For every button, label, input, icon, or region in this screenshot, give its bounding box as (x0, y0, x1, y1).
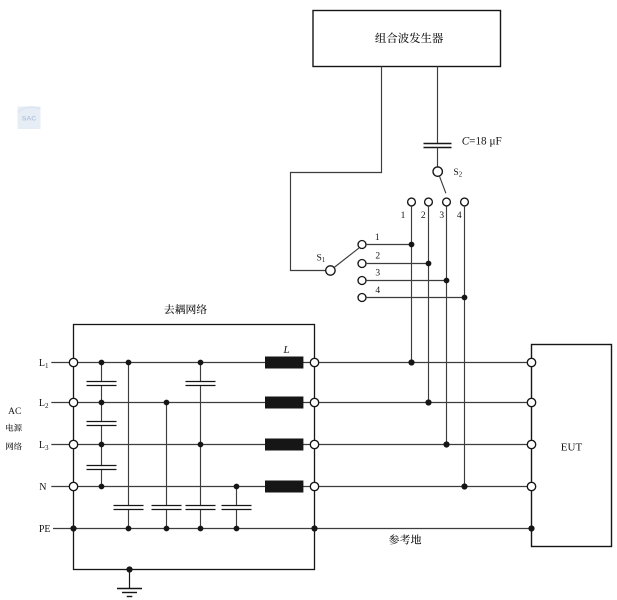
capacitor C = 18 uF (424, 144, 452, 148)
wire S1 contact 4 to vertical line 4 (366, 297, 465, 299)
decoupling box left edge terminal L2 (69, 398, 77, 406)
junction branch/L3 (198, 442, 204, 448)
svg-text:SAC: SAC (22, 116, 36, 123)
inductor L on line L1 (265, 357, 303, 369)
decoupling box left edge terminal L1 (69, 358, 77, 366)
bus line L2 (51, 402, 531, 404)
junction row2/line2 (426, 261, 432, 267)
junction PE at decoupling box right edge (311, 525, 317, 531)
junction line1 end on L1 (408, 359, 414, 365)
wire S1 contact 3 to vertical line 3 (366, 280, 447, 282)
junction C4/L1 (126, 360, 132, 366)
terminal labels 1 2 3 4 (401, 211, 462, 221)
junction row1/line1 (409, 242, 415, 248)
svg-text:1: 1 (375, 233, 380, 243)
S1 position contact 4 (358, 294, 366, 302)
capacitor C6 (between L1 and L2 on third branch) (186, 382, 216, 386)
capacitor C7 (L3 branch to PE) (186, 506, 216, 510)
EUT box (532, 345, 612, 547)
wire capacitor to switch S2 (437, 148, 439, 167)
junction chain/L2 (99, 400, 105, 406)
junction line4 end on N (461, 483, 467, 489)
junction line3 end on L3 (443, 441, 449, 447)
terminal 4 (461, 198, 469, 206)
wire S1 contact 1 to vertical line 1 (366, 244, 412, 246)
svg-text:2: 2 (421, 211, 426, 221)
svg-text:L: L (283, 344, 290, 356)
junction chain/N (99, 484, 105, 490)
wire from generator left output down-left to switch S1 (291, 67, 382, 271)
bus line N (51, 486, 531, 488)
capacitor C4 (L1 to PE) (114, 506, 144, 510)
wire vertical line 3 from terminal 3 to L3 (446, 206, 448, 445)
decoupling box right edge terminal L2 (310, 398, 318, 406)
combination wave generator box U1 组合波发生器 (313, 11, 501, 67)
EUT terminal N (527, 482, 535, 490)
switch S2 common contact (433, 167, 442, 176)
svg-text:4: 4 (375, 286, 380, 296)
vertical wire from L2 to capacitor C5 (166, 403, 168, 529)
svg-text:1: 1 (401, 211, 406, 221)
S1 row labels 1 2 3 4 (375, 233, 381, 296)
decoupling box right edge terminal L1 (310, 358, 318, 366)
junction C5/L2 (164, 400, 170, 406)
switch S1 blade (diagonal) (334, 248, 359, 268)
inductor L on line L3 (265, 439, 303, 451)
svg-text:N: N (39, 482, 46, 493)
capacitor chain vertical wire (L1-L2-L3-N) (101, 363, 103, 487)
capacitor C5 (L2 to PE) (152, 506, 182, 510)
ground symbol (117, 570, 142, 597)
label 参考地 (reference ground) (389, 534, 421, 544)
junction row3/line3 (444, 278, 450, 284)
decoupling box left edge terminal N (69, 482, 77, 490)
label 去耦网络 (164, 304, 206, 314)
vertical wire from N to capacitor C8 (236, 487, 238, 529)
svg-text:3: 3 (375, 268, 380, 278)
wire S1 contact 2 to vertical line 2 (366, 263, 429, 265)
bus line PE (53, 528, 532, 530)
junction C8/PE (234, 526, 240, 532)
EUT terminal L3 (527, 440, 535, 448)
decoupling box right edge terminal L3 (310, 440, 318, 448)
SAC watermark logo (18, 107, 41, 130)
wire vertical line 4 from terminal 4 to N (464, 206, 466, 487)
decoupling box right edge terminal N (310, 482, 318, 490)
svg-text:4: 4 (457, 211, 462, 221)
junction chain/L1 (99, 360, 105, 366)
svg-text:C=18 μF: C=18 μF (462, 136, 502, 148)
junction row4/line4 (462, 295, 468, 301)
capacitor C3 between L3 and N (87, 466, 117, 470)
bus line L3 (51, 444, 531, 446)
capacitor C1 between L1 and L2 (87, 382, 117, 386)
junction C8/N (234, 484, 240, 490)
svg-text:2: 2 (375, 251, 380, 261)
switch S2 blade (diagonal) (439, 176, 446, 193)
junction line2 end on L2 (425, 399, 431, 405)
junction C6/L1 (198, 360, 204, 366)
EUT terminal L1 (527, 358, 535, 366)
svg-text:PE: PE (39, 524, 51, 535)
svg-text:AC: AC (8, 407, 21, 417)
terminal 3 (443, 198, 451, 206)
EUT terminal L2 (527, 398, 535, 406)
wire vertical line 2 from terminal 2 to L2 (428, 206, 430, 403)
svg-text:3: 3 (439, 211, 444, 221)
capacitor C2 between L2 and L3 (87, 422, 117, 426)
junction chain/L3 (99, 442, 105, 448)
junction ground tap on box bottom edge (126, 566, 132, 572)
decoupling box left edge terminal L3 (69, 440, 77, 448)
decoupling network box 去耦网络 (74, 325, 315, 570)
junction PE at decoupling box left edge (70, 525, 76, 531)
svg-text:EUT: EUT (561, 442, 583, 454)
wire vertical line 1 from terminal 1 to L1 (411, 206, 413, 363)
vertical wire from L1 through capacitor C6 to L3 and down to capacitor C7 (200, 363, 202, 529)
inductor L on line N (265, 481, 303, 493)
bus line L1 (51, 362, 531, 364)
terminal 1 (408, 198, 416, 206)
terminal 2 (425, 198, 433, 206)
S1 position contact 2 (358, 260, 366, 268)
junction C5/PE (164, 526, 170, 532)
S1 position contact 3 (358, 277, 366, 285)
wire from generator right output down to capacitor C (437, 67, 439, 144)
label AC 电源网络 (AC mains network) (6, 407, 22, 450)
capacitor C8 (N to PE) (222, 506, 252, 510)
junction C7/PE (198, 526, 204, 532)
S1 position contact 1 (358, 241, 366, 249)
switch S1 common contact (326, 266, 335, 275)
junction PE at EUT (528, 525, 534, 531)
inductor L on line L2 (265, 397, 303, 409)
junction C4/PE (126, 526, 132, 532)
vertical wire from L1 to capacitor C4 (128, 363, 130, 529)
